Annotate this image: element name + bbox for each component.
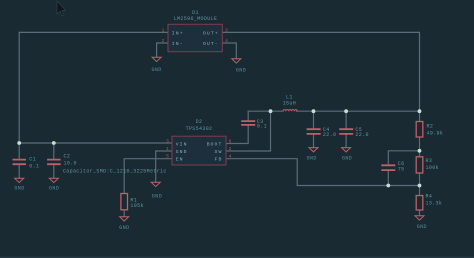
svg-text:100k: 100k [426,165,439,171]
svg-text:4: 4 [225,38,228,44]
svg-text:GND: GND [151,67,161,73]
svg-text:13.3k: 13.3k [426,201,443,207]
svg-text:FB: FB [215,157,223,163]
svg-text:SW: SW [215,149,223,155]
svg-text:GND: GND [307,156,317,162]
svg-text:C2: C2 [64,154,71,160]
svg-text:TPS54302: TPS54302 [186,126,213,132]
svg-text:4: 4 [229,154,232,160]
svg-text:L1: L1 [286,94,293,100]
svg-text:22.0: 22.0 [323,132,336,138]
svg-text:C1: C1 [29,156,36,162]
svg-text:GND: GND [49,185,59,191]
svg-text:3: 3 [225,27,228,33]
svg-text:IN-: IN- [172,41,184,47]
svg-text:75: 75 [398,166,405,172]
svg-text:LM2596_MODULE: LM2596_MODULE [174,16,218,22]
svg-text:1: 1 [166,146,169,152]
svg-text:0.1: 0.1 [257,124,267,130]
svg-text:15uH: 15uH [283,101,296,107]
svg-text:2: 2 [162,38,165,44]
svg-text:GND: GND [152,194,162,200]
svg-text:R4: R4 [426,194,433,200]
svg-text:D2: D2 [196,119,203,125]
svg-text:GND: GND [119,225,129,231]
svg-text:GND: GND [417,224,427,230]
svg-text:OUT+: OUT+ [203,30,219,36]
svg-text:0.1: 0.1 [29,163,39,169]
svg-text:22.0: 22.0 [355,132,368,138]
svg-text:3: 3 [166,139,169,145]
svg-text:2: 2 [229,146,232,152]
svg-text:GND: GND [14,185,24,191]
svg-text:GND: GND [342,156,352,162]
svg-text:10.0: 10.0 [64,161,77,167]
svg-text:6: 6 [229,139,232,145]
svg-text:EN: EN [176,157,184,163]
svg-text:BOOT: BOOT [207,141,223,147]
svg-text:49.9k: 49.9k [427,130,444,136]
svg-text:GND: GND [236,68,246,74]
svg-text:105k: 105k [130,203,143,209]
svg-text:R3: R3 [426,158,433,164]
svg-text:VIN: VIN [176,141,188,147]
svg-text:Capacitor_SMD:C_1210_3225Metri: Capacitor_SMD:C_1210_3225Metric [63,168,167,174]
svg-text:OUT-: OUT- [203,41,219,47]
svg-text:GND: GND [176,149,188,155]
svg-text:5: 5 [166,154,169,160]
svg-text:1: 1 [162,27,165,33]
svg-text:R2: R2 [427,124,434,130]
svg-text:IN+: IN+ [172,30,184,36]
